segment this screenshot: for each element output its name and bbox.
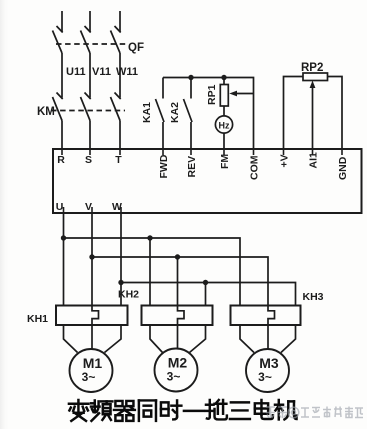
wire L1 feeder bbox=[61, 11, 63, 32]
junction W bus start bbox=[118, 280, 123, 285]
motor M3 bbox=[246, 349, 289, 392]
contactor KM main contacts (3-pole) bbox=[51, 93, 125, 121]
svg-text:3~: 3~ bbox=[82, 370, 96, 384]
svg-text:+V: +V bbox=[279, 154, 291, 167]
wire KM to terminal R bbox=[61, 121, 63, 150]
svg-text:RP2: RP2 bbox=[301, 62, 323, 74]
junction V bus to KH2 bbox=[175, 254, 180, 259]
svg-text:QF: QF bbox=[128, 42, 144, 54]
wire KH2 input 2 bbox=[177, 257, 179, 306]
wire KH2 output right bbox=[190, 325, 206, 353]
wire QF to KM phase U11 bbox=[61, 53, 63, 98]
frequency meter Hz bbox=[215, 106, 232, 149]
wire KH2 input 3 bbox=[205, 283, 207, 306]
thermal relay KH3 bbox=[231, 306, 301, 326]
junction at KA2 top bbox=[188, 75, 193, 80]
motor M2 bbox=[155, 349, 198, 392]
potentiometer RP1 bbox=[220, 78, 253, 107]
svg-text:KM: KM bbox=[37, 106, 55, 118]
wire V output bbox=[91, 213, 93, 306]
wire KH2 output mid bbox=[177, 325, 179, 349]
wire KH1 output right bbox=[105, 325, 122, 353]
terminal ticks bottom row U V W bbox=[64, 207, 122, 213]
junction W bus to KH2 bbox=[203, 280, 208, 285]
wire W branch bus bbox=[121, 283, 296, 306]
svg-text:GND: GND bbox=[337, 156, 349, 180]
svg-text:KH3: KH3 bbox=[303, 291, 324, 303]
svg-text:R: R bbox=[57, 154, 65, 166]
wire V branch bus bbox=[92, 257, 268, 306]
svg-text:FM: FM bbox=[219, 154, 231, 169]
svg-text:U11: U11 bbox=[66, 66, 86, 78]
junction U bus start bbox=[61, 235, 66, 240]
thermal element KH2 bbox=[178, 306, 185, 326]
wire KH3 output mid bbox=[267, 325, 269, 349]
wire QF to KM phase V11 bbox=[89, 53, 91, 98]
inverter unit box bbox=[53, 149, 362, 213]
thermal relay KH1 bbox=[56, 306, 128, 326]
svg-text:S: S bbox=[85, 154, 92, 166]
motor M1 bbox=[70, 349, 113, 392]
svg-text:W: W bbox=[112, 201, 122, 213]
wire KH2 output left bbox=[150, 325, 163, 353]
svg-text:KH1: KH1 bbox=[27, 313, 48, 325]
junction U bus to KH2 bbox=[147, 235, 152, 240]
svg-text:COM: COM bbox=[249, 155, 261, 180]
wire L3 feeder bbox=[119, 11, 121, 32]
wire QF to KM phase W11 bbox=[119, 53, 121, 98]
relay contact KA1 bbox=[156, 78, 165, 150]
junction V bus start bbox=[89, 254, 94, 259]
wire W output bbox=[120, 213, 122, 306]
thermal element KH3 bbox=[268, 306, 275, 326]
relay contact KA2 bbox=[184, 78, 193, 150]
svg-text:KA1: KA1 bbox=[141, 102, 153, 123]
wire U output bbox=[63, 213, 65, 306]
svg-text:W11: W11 bbox=[116, 66, 138, 78]
svg-text:Hz: Hz bbox=[219, 121, 230, 131]
wire KM to terminal T bbox=[119, 121, 121, 150]
title text: bian pin qi tong shi yi tuo san dian ji (inverter drives three motors) bbox=[69, 400, 297, 421]
svg-text:M3: M3 bbox=[259, 355, 279, 371]
wire L2 feeder bbox=[89, 11, 91, 32]
svg-text:V11: V11 bbox=[92, 66, 111, 78]
wire KH2 input 1 bbox=[149, 238, 151, 306]
thermal relay KH2 bbox=[142, 306, 213, 326]
svg-text:3~: 3~ bbox=[167, 370, 181, 384]
svg-text:M2: M2 bbox=[168, 355, 188, 371]
potentiometer RP2 bbox=[284, 73, 343, 149]
svg-text:T: T bbox=[115, 154, 122, 166]
terminal ticks top row bbox=[62, 149, 342, 155]
svg-text:V: V bbox=[85, 201, 92, 213]
thermal element KH1 bbox=[92, 306, 99, 326]
wire control bus KA1/KA2/RP1 to COM bbox=[163, 78, 254, 150]
svg-text:KH2: KH2 bbox=[118, 289, 139, 301]
wire KH1 output left bbox=[64, 325, 78, 353]
svg-text:FWD: FWD bbox=[158, 154, 170, 178]
svg-text:M1: M1 bbox=[83, 355, 103, 371]
wire U branch bus bbox=[64, 238, 241, 306]
svg-text:3~: 3~ bbox=[258, 370, 272, 384]
circuit breaker QF (3-pole) bbox=[53, 26, 126, 53]
svg-text:REV: REV bbox=[186, 156, 198, 178]
wire KM to terminal S bbox=[89, 121, 91, 150]
svg-text:KA2: KA2 bbox=[169, 102, 181, 123]
watermark (faint) bbox=[266, 407, 363, 419]
wire KH3 output left bbox=[240, 325, 254, 353]
wire KH1 output mid bbox=[91, 325, 93, 349]
svg-text:RP1: RP1 bbox=[206, 84, 218, 105]
junction at RP1 top bbox=[221, 75, 226, 80]
svg-text:U: U bbox=[56, 201, 64, 213]
svg-text:AI1: AI1 bbox=[308, 152, 320, 169]
wire KH3 output right bbox=[281, 325, 296, 353]
